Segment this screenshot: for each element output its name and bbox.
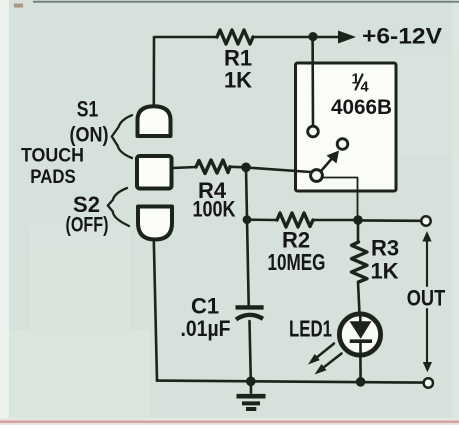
resistor R1 xyxy=(217,30,253,44)
pin circle B switch output xyxy=(337,139,348,150)
wire R3 bottom lead xyxy=(358,282,360,314)
capacitor C1 plate top xyxy=(236,305,264,309)
wire pin from V+ into U1 xyxy=(311,37,314,126)
resistor R3 xyxy=(352,242,368,282)
svg-text:LED1: LED1 xyxy=(289,316,332,342)
node LED ground junction xyxy=(356,377,366,387)
wire bottom rail xyxy=(157,381,423,383)
touch pad S2 bottom xyxy=(138,207,172,240)
label TOUCH PADS xyxy=(21,146,84,189)
svg-text:1K: 1K xyxy=(370,259,398,284)
svg-text:OUT: OUT xyxy=(407,286,446,311)
wire node down to C1 xyxy=(246,167,249,305)
OUT arrow up xyxy=(422,231,431,286)
wire top rail xyxy=(154,37,313,105)
terminal OUT bottom xyxy=(424,378,433,387)
pin circle A xyxy=(308,126,319,137)
terminal OUT top xyxy=(421,216,430,225)
switch lever arrow xyxy=(322,151,340,171)
wire LED to rail xyxy=(359,355,362,382)
wire R3 top lead xyxy=(357,220,360,242)
label 1/4 xyxy=(352,72,369,96)
LED light arrows xyxy=(308,344,342,375)
wire C1 bottom to ground rail xyxy=(250,321,251,381)
wire S2 pad down to rail xyxy=(154,240,157,381)
svg-text:+6-12V: +6-12V xyxy=(362,24,442,49)
brace S1 xyxy=(112,115,132,158)
wire middle pad to R4 xyxy=(173,167,197,168)
LED1 circle xyxy=(339,314,380,355)
svg-text:100K: 100K xyxy=(193,197,236,222)
label OUT xyxy=(407,286,446,311)
power arrow to +6-12V xyxy=(313,31,356,44)
label S1 xyxy=(77,97,99,122)
ground xyxy=(237,381,266,409)
label R3 value xyxy=(370,236,399,284)
wire node to OUT top terminal xyxy=(358,219,422,222)
svg-text:1K: 1K xyxy=(224,68,252,93)
svg-text:4066B: 4066B xyxy=(331,95,392,119)
op-amp U1 4066B box xyxy=(296,63,397,191)
label (OFF) xyxy=(66,214,109,237)
label C1 value xyxy=(181,294,231,342)
label R4 value xyxy=(193,178,236,222)
svg-text:R3: R3 xyxy=(371,236,399,261)
pin circle C switch input xyxy=(311,170,323,182)
svg-text:4: 4 xyxy=(361,80,369,96)
svg-text:C1: C1 xyxy=(191,294,219,319)
node R2 left junction xyxy=(243,215,252,224)
svg-text:(ON): (ON) xyxy=(70,124,109,147)
svg-text:TOUCH: TOUCH xyxy=(21,146,84,167)
touch pad middle xyxy=(137,156,172,189)
node switch output junction xyxy=(353,215,363,225)
label R2 value xyxy=(268,228,326,276)
brace S2 xyxy=(108,188,129,226)
label (ON) xyxy=(70,124,109,147)
label 4066B xyxy=(331,95,392,119)
svg-text:10MEG: 10MEG xyxy=(268,249,326,275)
wire R2 right to out node xyxy=(313,219,358,222)
svg-text:S1: S1 xyxy=(77,97,99,122)
touch pad S1 top xyxy=(138,106,171,136)
wire R4 to node xyxy=(230,166,246,169)
node R4 junction xyxy=(241,163,251,173)
svg-text:(OFF): (OFF) xyxy=(66,214,109,237)
node C1 ground junction xyxy=(246,377,256,387)
node V+ junction xyxy=(308,32,317,41)
LED1 triangle and cathode xyxy=(350,315,373,355)
wire U1 output down to OUT node xyxy=(323,178,358,221)
resistor R4 xyxy=(196,160,230,174)
wire U1 input from R4 node xyxy=(246,168,311,173)
label S2 xyxy=(73,192,100,217)
label LED1 xyxy=(289,316,332,342)
OUT arrow down xyxy=(423,309,432,372)
capacitor C1 plate bottom curved xyxy=(236,315,263,320)
wire R2 left xyxy=(247,218,277,221)
svg-text:.01µF: .01µF xyxy=(181,316,231,341)
resistor R2 xyxy=(277,213,313,227)
label R1 value xyxy=(224,46,252,93)
svg-text:PADS: PADS xyxy=(30,166,76,188)
